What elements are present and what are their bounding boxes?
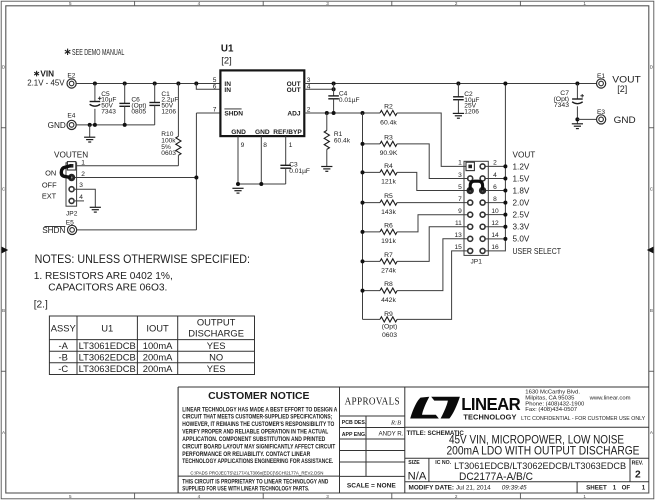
svg-text:4: 4 (198, 494, 201, 499)
svg-text:ON: ON (45, 168, 56, 177)
svg-text:R8: R8 (384, 281, 393, 288)
svg-text:1206: 1206 (161, 108, 176, 115)
wire JP2 pin4 stub (75, 200, 84, 202)
JP1 pin 5 pad (467, 187, 474, 194)
node junction bus/R3 (361, 142, 365, 146)
svg-text:2: 2 (307, 106, 311, 113)
node junction bus row 5 (503, 213, 507, 217)
svg-text:GND: GND (48, 121, 66, 130)
svg-text:Fax: (408)434-0507: Fax: (408)434-0507 (525, 407, 577, 413)
svg-text:11: 11 (455, 220, 462, 227)
node junction VOUT/bus (503, 82, 507, 86)
svg-text:4: 4 (493, 172, 497, 179)
svg-text:REF/BYP: REF/BYP (273, 129, 302, 136)
svg-text:USER SELECT: USER SELECT (513, 247, 562, 256)
svg-text:[2.]: [2.] (34, 300, 48, 311)
node junction C5/gnd (93, 123, 97, 127)
wire SHDN vertical (195, 113, 197, 230)
svg-text:OF: OF (622, 484, 631, 491)
resistor R10 (161, 84, 181, 166)
svg-text:SHEET: SHEET (586, 484, 607, 491)
note SEE DEMO MANUAL (65, 48, 125, 57)
wire VIN rail (76, 83, 220, 85)
svg-text:1: 1 (613, 484, 617, 491)
svg-text:274k: 274k (381, 268, 396, 275)
capacitor C1 (149, 84, 178, 125)
svg-text:7: 7 (458, 196, 462, 203)
wire E5 to SHDN net (77, 229, 197, 231)
svg-text:LINEAR: LINEAR (461, 393, 521, 414)
node junction bus row 3 (503, 189, 507, 193)
JP2 pin 1 pad (67, 162, 75, 170)
svg-text:THIS CIRCUIT IS PROPRIETARY TO: THIS CIRCUIT IS PROPRIETARY TO LINEAR TE… (182, 478, 328, 485)
node junction bus/R7 (361, 259, 365, 263)
node junction C4 top (332, 82, 336, 86)
wire U1 pin4 jog (304, 88, 333, 90)
svg-text:60.4k: 60.4k (380, 119, 397, 126)
svg-text:TECHNOLOGY APPLICATIONS ENGINE: TECHNOLOGY APPLICATIONS ENGINEERING FOR … (182, 458, 333, 465)
JP2 pin 3 pad (69, 187, 74, 192)
wire U1 gnd pin9 (237, 136, 239, 184)
svg-text:U1: U1 (221, 44, 234, 55)
svg-text:5.0V: 5.0V (513, 235, 530, 244)
node junction bus row 6 (503, 225, 507, 229)
node junction C6/gnd (123, 123, 127, 127)
svg-text:2: 2 (635, 469, 641, 480)
ground C2 (453, 112, 464, 114)
JP1 pin 1 pad (466, 162, 474, 170)
ground U1 (232, 187, 243, 189)
ground input rail (84, 125, 95, 142)
U1 pin label SHDN (224, 109, 243, 118)
svg-text:LT3061EDCB/LT3062EDCB/LT3063ED: LT3061EDCB/LT3062EDCB/LT3063EDCB (454, 460, 626, 471)
svg-text:IOUT: IOUT (146, 322, 169, 333)
svg-text:9: 9 (241, 142, 245, 149)
JP1 pin 16 pad (480, 248, 485, 253)
resistor R5 (363, 193, 469, 216)
svg-text:09:39:45: 09:39:45 (502, 484, 527, 491)
JP1 pin 4 pad (480, 176, 485, 181)
svg-text:DC2177A-A/B/C: DC2177A-A/B/C (459, 471, 533, 483)
svg-text:13: 13 (454, 232, 462, 239)
ground R1 (321, 166, 332, 168)
wire U1 pin6 jog (196, 84, 220, 90)
svg-text:TITLE:: TITLE: (407, 430, 426, 437)
svg-text:SUPPLIED FOR USE WITH LINEAR T: SUPPLIED FOR USE WITH LINEAR TECHNOLOGY … (182, 486, 309, 493)
JP2 pin 2 pad (68, 174, 75, 181)
wire E3 gnd (577, 118, 596, 120)
svg-text:ADJ: ADJ (287, 111, 301, 118)
svg-text:DISCHARGE: DISCHARGE (188, 328, 244, 339)
resistor R8 (363, 239, 469, 304)
svg-text:OFF: OFF (42, 180, 57, 189)
JP1 pin 12 pad (480, 224, 485, 229)
node junction R10/VIN (176, 82, 180, 86)
JP1 pin 13 pad (468, 236, 473, 241)
turret E4 (48, 113, 77, 131)
JP1 pin 3 pad (468, 176, 473, 181)
svg-text:2.5V: 2.5V (513, 211, 530, 220)
svg-text:-C: -C (58, 363, 68, 374)
svg-text:8: 8 (493, 196, 497, 203)
svg-text:GND: GND (614, 114, 636, 125)
svg-text:SHDN: SHDN (42, 226, 65, 235)
svg-text:SIZE: SIZE (408, 460, 420, 466)
svg-text:7343: 7343 (101, 108, 116, 115)
svg-text:143k: 143k (381, 209, 396, 216)
capacitor C5 (90, 84, 117, 125)
svg-text:PCB DES.: PCB DES. (342, 420, 367, 426)
wire JP1 pin10 to bus (485, 214, 505, 216)
svg-text:200mA LDO WITH OUTPUT DISCHARG: 200mA LDO WITH OUTPUT DISCHARGE (447, 444, 640, 458)
capacitor C7 (554, 84, 584, 124)
wire U1 ground bus (238, 183, 286, 185)
wire JP1 pin8 to bus (485, 202, 505, 204)
node junction pin4 (332, 87, 336, 91)
turret E5 (42, 219, 77, 235)
svg-text:VOUT: VOUT (513, 150, 536, 159)
wire VOUT select bus (486, 84, 505, 251)
svg-text:15: 15 (454, 244, 462, 251)
JP1 pin 9 pad (468, 212, 473, 217)
JP1 pin 2 pad (480, 164, 485, 169)
node junction bus/R8 (361, 289, 365, 293)
svg-text:90.9K: 90.9K (380, 150, 398, 157)
svg-text:2: 2 (455, 1, 458, 6)
svg-text:2.0V: 2.0V (513, 199, 530, 208)
wire VOUT rail (304, 83, 596, 85)
wire feedback ladder bus (362, 113, 364, 319)
wire U1 gnd pin8 (260, 136, 262, 184)
svg-text:R2: R2 (384, 104, 393, 111)
svg-text:B: B (650, 308, 653, 313)
svg-text:3: 3 (326, 1, 329, 6)
op-amp U1 LT3061 regulator body (220, 44, 304, 137)
assembly options table (49, 316, 254, 375)
svg-text:SCALE = NONE: SCALE = NONE (347, 483, 397, 490)
svg-text:4: 4 (198, 1, 201, 6)
ground JP2 pin3 (90, 206, 101, 208)
turret E1 (597, 73, 606, 88)
svg-text:(Opt): (Opt) (382, 324, 397, 331)
net label VOUT out (612, 74, 641, 94)
svg-text:1.2V: 1.2V (513, 162, 530, 171)
wire JP1 pin6 to bus (485, 190, 505, 192)
svg-text:B: B (2, 308, 5, 313)
node junction bus row 1 (503, 164, 507, 168)
svg-text:1: 1 (583, 494, 586, 499)
svg-text:7: 7 (213, 106, 217, 113)
svg-text:Jul 21, 2014: Jul 21, 2014 (456, 484, 491, 491)
svg-text:7343: 7343 (554, 102, 569, 109)
svg-text:1206: 1206 (464, 109, 479, 116)
address block (521, 390, 646, 422)
svg-text:E1: E1 (597, 73, 605, 80)
customer notice (178, 391, 339, 493)
wire JP2 pin3 to gnd (75, 189, 95, 207)
svg-text:1.8V: 1.8V (513, 186, 530, 195)
svg-text:R7: R7 (384, 252, 393, 259)
node junction bus/ADJ (361, 111, 365, 115)
svg-text:HOWEVER, IT REMAINS THE CUSTOM: HOWEVER, IT REMAINS THE CUSTOMER'S RESPO… (182, 421, 334, 428)
svg-text:TECHNOLOGY: TECHNOLOGY (463, 413, 516, 422)
node junction bus/R5 (361, 201, 365, 205)
wire JP1 pin2 to bus (485, 165, 505, 167)
resistor R4 (363, 163, 469, 191)
svg-text:E5: E5 (66, 219, 74, 226)
JP2 shunt ON jumper (61, 166, 71, 178)
svg-text:LT3061EDCB: LT3061EDCB (79, 340, 136, 351)
JP1 pin 6 pad (479, 187, 486, 194)
svg-text:NOTES: UNLESS OTHERWISE SPECI: NOTES: UNLESS OTHERWISE SPECIFIED: (35, 252, 250, 266)
svg-text:R3: R3 (384, 135, 393, 142)
svg-text:2: 2 (455, 494, 458, 499)
svg-text:ASSY: ASSY (51, 322, 77, 333)
svg-text:1: 1 (642, 484, 646, 491)
svg-text:191k: 191k (381, 238, 396, 245)
svg-text:200mA: 200mA (143, 363, 173, 374)
svg-text:ANDY R.: ANDY R. (379, 431, 404, 438)
node junction bus row 4 (503, 201, 507, 205)
connector JP1 body (464, 161, 488, 255)
svg-text:10: 10 (491, 208, 499, 215)
svg-text:E2: E2 (67, 72, 75, 79)
svg-text:14: 14 (491, 232, 499, 239)
JP2 pin 4 pad (69, 198, 74, 203)
svg-text:1.5V: 1.5V (513, 174, 530, 183)
svg-text:1. RESISTORS ARE 0402 1%,: 1. RESISTORS ARE 0402 1%, (34, 271, 173, 282)
svg-text:3: 3 (79, 182, 83, 189)
svg-text:NO: NO (209, 352, 223, 363)
svg-text:YES: YES (207, 363, 226, 374)
svg-text:0.01µF: 0.01µF (339, 97, 360, 104)
svg-text:EXT: EXT (42, 192, 57, 201)
svg-text:JP1: JP1 (471, 259, 483, 266)
capacitor C6 (119, 84, 146, 125)
node junction bus/R4 (361, 170, 365, 174)
node junction C7/E3 (575, 117, 579, 121)
node junction gnd branch (88, 123, 92, 127)
node junction C4/ADJ (332, 111, 336, 115)
svg-text:9: 9 (458, 208, 462, 215)
node junction R1/ADJ (325, 111, 329, 115)
JP1 pin 7 pad (468, 200, 473, 205)
svg-text:1: 1 (81, 159, 85, 166)
wire JP1 pin12 to bus (485, 226, 505, 228)
wire JP2 pin2 to SHDN net (75, 177, 196, 179)
node junction gnd9 (236, 182, 240, 186)
svg-text:IN: IN (224, 87, 231, 94)
svg-text:VOUTEN: VOUTEN (54, 151, 88, 160)
svg-text:0603: 0603 (161, 150, 176, 157)
svg-text:1: 1 (458, 160, 462, 167)
svg-text:6: 6 (213, 83, 217, 90)
svg-text:VIN: VIN (40, 70, 54, 79)
title block frame (178, 386, 649, 388)
svg-text:CAPACITORS ARE 06O3.: CAPACITORS ARE 06O3. (48, 283, 167, 294)
JP1 pin 11 pad (468, 224, 473, 229)
wire input ground rail (76, 124, 155, 126)
capacitor C2 (453, 84, 479, 116)
svg-text:LT3063EDCB: LT3063EDCB (79, 363, 136, 374)
node junction gnd8 (259, 182, 263, 186)
net label VIN (27, 70, 65, 88)
Linear Technology logo (410, 393, 521, 421)
node junction C5/VIN (93, 82, 97, 86)
svg-text:16: 16 (491, 244, 499, 251)
resistor R1 (324, 113, 351, 166)
svg-text:-B: -B (59, 352, 68, 363)
svg-text:0.01µF: 0.01µF (289, 168, 310, 175)
svg-text:R:B: R:B (390, 419, 401, 426)
svg-text:LINEAR TECHNOLOGY HAS MADE A B: LINEAR TECHNOLOGY HAS MADE A BEST EFFORT… (182, 406, 337, 413)
svg-text:200mA: 200mA (143, 352, 173, 363)
svg-text:4: 4 (79, 194, 83, 201)
turret E2 (67, 72, 76, 88)
svg-text:SEE DEMO MANUAL: SEE DEMO MANUAL (72, 48, 125, 57)
svg-text:2: 2 (81, 171, 85, 178)
svg-text:www.linear.com: www.linear.com (589, 396, 631, 402)
resistor R7 (363, 227, 469, 275)
svg-text:442k: 442k (381, 297, 396, 304)
part number block (408, 460, 644, 483)
JP1 pin 10 pad (480, 212, 485, 217)
svg-text:6: 6 (493, 184, 497, 191)
svg-text:3.3V: 3.3V (513, 223, 530, 232)
svg-text:CIRCUIT THAT MEETS CUSTOMER-SU: CIRCUIT THAT MEETS CUSTOMER-SUPPLIED SPE… (182, 414, 332, 421)
node junction SHDN/JP2 (194, 176, 198, 180)
svg-text:REV.: REV. (632, 461, 644, 467)
ground C7 (572, 123, 583, 125)
svg-text:GND: GND (231, 129, 246, 136)
wire JP1 pin14 to bus (485, 238, 505, 240)
svg-text:MODIFY DATE:: MODIFY DATE: (409, 484, 455, 491)
svg-text:3: 3 (458, 172, 462, 179)
svg-text:60.4k: 60.4k (334, 137, 351, 144)
svg-text:3: 3 (326, 494, 329, 499)
svg-text:CIRCUIT BOARD LAYOUT MAY SIGNI: CIRCUIT BOARD LAYOUT MAY SIGNIFICANTLY A… (182, 443, 335, 450)
svg-text:LTC CONFIDENTIAL - FOR CUSTOME: LTC CONFIDENTIAL - FOR CUSTOMER USE ONLY (521, 416, 646, 422)
svg-text:2: 2 (493, 160, 497, 167)
capacitor C3 (280, 162, 310, 184)
title text (407, 430, 640, 458)
svg-text:5: 5 (69, 494, 72, 499)
svg-text:YES: YES (207, 340, 226, 351)
svg-text:LT3062EDCB: LT3062EDCB (79, 352, 136, 363)
turret E3 (597, 109, 606, 124)
svg-text:APP ENG.: APP ENG. (342, 432, 367, 438)
JP1 pin 14 pad (480, 236, 485, 241)
svg-text:0603: 0603 (382, 332, 397, 339)
svg-text:GND: GND (255, 129, 270, 136)
svg-text:R4: R4 (384, 163, 393, 170)
svg-text:U1: U1 (101, 322, 113, 333)
svg-text:[2]: [2] (617, 84, 627, 94)
svg-text:OUTPUT: OUTPUT (197, 317, 236, 328)
svg-text:[2]: [2] (221, 54, 231, 65)
node junction C1/VIN (153, 82, 157, 86)
svg-text:1: 1 (583, 1, 586, 6)
node junction C2/VOUT (456, 82, 460, 86)
svg-text:JP2: JP2 (66, 210, 78, 217)
svg-text:-A: -A (59, 340, 69, 351)
svg-text:VERIFY PROPER AND RELIABLE OPE: VERIFY PROPER AND RELIABLE OPERATION IN … (182, 429, 328, 436)
svg-text:APPLICATION. COMPONENT SUBSTI: APPLICATION. COMPONENT SUBSTITUTION AND … (182, 436, 325, 443)
JP1 pin 15 pad (468, 248, 473, 253)
node junction bus/R6 (361, 230, 365, 234)
svg-text:CUSTOMER NOTICE: CUSTOMER NOTICE (208, 391, 309, 402)
svg-text:5: 5 (458, 184, 462, 191)
node junction IN pins (194, 82, 198, 86)
node junction bus row 7 (503, 237, 507, 241)
svg-text:E4: E4 (67, 113, 75, 120)
svg-text:E3: E3 (597, 109, 605, 116)
svg-text:121k: 121k (381, 179, 396, 186)
svg-text:R9: R9 (384, 311, 393, 318)
svg-text:2.1V - 45V: 2.1V - 45V (27, 79, 65, 88)
svg-text:PERFORMANCE OR RELIABILITY. C: PERFORMANCE OR RELIABILITY. CONTACT LINE… (182, 451, 310, 458)
svg-text:R6: R6 (384, 223, 393, 230)
svg-text:5: 5 (69, 1, 72, 6)
JP1 shunt jumper 1.8V (470, 181, 482, 190)
svg-text:SHDN: SHDN (224, 111, 243, 118)
node junction bus row 2 (503, 176, 507, 180)
svg-text:1: 1 (289, 142, 293, 149)
svg-text:8: 8 (263, 142, 267, 149)
connector JP2 (66, 163, 77, 206)
wire U1 refbyp pin1 (285, 136, 287, 165)
JP1 pin 8 pad (480, 200, 485, 205)
wire R10 to JP2 pin1 (76, 165, 178, 167)
svg-text:APPROVALS: APPROVALS (345, 397, 400, 408)
svg-text:R5: R5 (384, 193, 393, 200)
wire ADJ net (304, 112, 380, 114)
svg-text:OUT: OUT (287, 87, 301, 94)
svg-text:100mA: 100mA (143, 340, 173, 351)
wire U1 pin7 (196, 112, 220, 114)
resistor R6 (363, 215, 469, 246)
node junction C6/VIN (123, 82, 127, 86)
svg-text:0805: 0805 (131, 108, 146, 115)
resistor R2 (380, 104, 468, 167)
approvals block (340, 397, 405, 490)
resistor R3 (363, 135, 469, 179)
svg-text:12: 12 (491, 220, 499, 227)
svg-text:N/A: N/A (408, 470, 427, 482)
wire JP1 pin4 to bus (485, 177, 505, 179)
capacitor C4 (328, 84, 359, 114)
modify date row (409, 484, 646, 491)
svg-text:IC NO.: IC NO. (435, 460, 451, 466)
resistor R9 (363, 251, 469, 339)
node junction C7/VOUT (575, 82, 579, 86)
